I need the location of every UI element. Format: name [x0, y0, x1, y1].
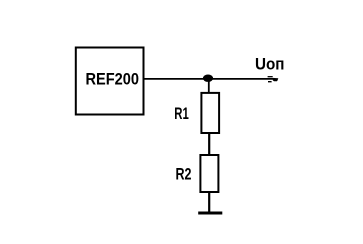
resistor R2: [200, 155, 218, 192]
wire: REF200 output to Uоп arrow: [144, 78, 273, 80]
node A: junction dot: [203, 75, 213, 82]
svg-text:Uоп: Uоп: [255, 56, 285, 74]
wire: R2 bottom to ground: [208, 192, 210, 213]
ground: [198, 212, 222, 215]
output arrowhead of net Uоп: [268, 77, 279, 82]
resistor R1: [201, 93, 219, 133]
svg-text:R2: R2: [176, 166, 192, 184]
wire: R1 bottom to R2 top: [208, 133, 210, 156]
svg-text:R1: R1: [174, 105, 189, 123]
IC U1 REF200 current-source block: [76, 48, 144, 115]
wire: node A down to R1 top: [208, 78, 210, 94]
svg-text:REF200: REF200: [86, 70, 140, 88]
